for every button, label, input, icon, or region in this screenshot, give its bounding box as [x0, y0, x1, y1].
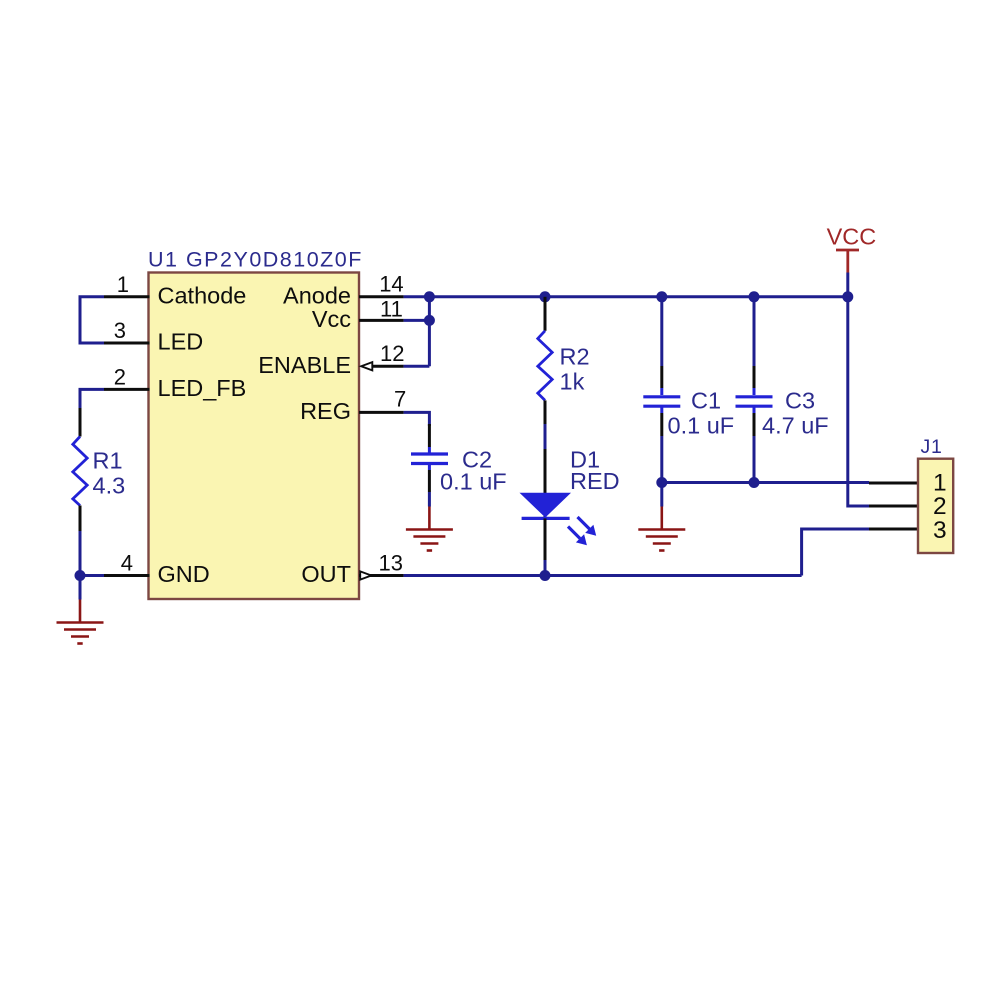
svg-text:U1 GP2Y0D810Z0F: U1 GP2Y0D810Z0F	[148, 247, 363, 271]
ground symbol below C2	[406, 507, 453, 551]
svg-text:11: 11	[380, 296, 403, 321]
svg-text:C3: C3	[785, 388, 815, 414]
svg-text:Anode: Anode	[283, 282, 351, 308]
wire C2 to ground	[428, 492, 431, 507]
capacitor C3	[736, 366, 773, 436]
junction node D1/OUT	[540, 570, 551, 581]
wire pin1 to left loop	[80, 297, 104, 343]
svg-text:4.7 uF: 4.7 uF	[762, 413, 829, 439]
OUT net wire	[404, 574, 802, 577]
svg-text:C1: C1	[691, 388, 721, 414]
bottom cap net to J1 pin1	[662, 481, 869, 484]
junction node pin14	[424, 291, 435, 302]
svg-text:Cathode: Cathode	[158, 282, 247, 308]
wire Vcc pin to vertical	[404, 319, 430, 322]
junction node VCC	[842, 291, 853, 302]
svg-text:Vcc: Vcc	[312, 306, 351, 332]
pin 1 stub (Cathode)	[104, 295, 150, 298]
J1 pin3 stub	[869, 528, 918, 531]
wire VCC to top rail	[846, 273, 849, 297]
pin 7 stub (REG)	[359, 411, 404, 414]
svg-text:4.3: 4.3	[93, 473, 126, 499]
svg-text:2: 2	[114, 364, 126, 389]
wire GND node to pin4	[80, 574, 104, 577]
wire node down to ground	[79, 576, 82, 600]
OUT net vertical to J1 pin3	[802, 529, 869, 576]
pin 11 stub (Vcc)	[359, 319, 404, 322]
capacitor C2	[411, 424, 448, 492]
svg-text:7: 7	[394, 387, 406, 412]
pin 3 stub (LED)	[104, 342, 150, 345]
top net wire (Anode/Vcc rail)	[404, 295, 848, 298]
svg-text:4: 4	[121, 551, 133, 576]
LED light arrows	[578, 517, 590, 529]
junction node C3 top	[749, 291, 760, 302]
wire REG to C2	[404, 412, 430, 426]
svg-text:1k: 1k	[560, 369, 585, 395]
pin 13 output arrow	[360, 571, 371, 579]
svg-text:OUT: OUT	[301, 561, 351, 587]
svg-text:GND: GND	[158, 561, 210, 587]
svg-text:13: 13	[379, 551, 403, 576]
junction node at R1/GND	[75, 570, 86, 581]
wire VCC down to J1 pin2	[848, 297, 869, 506]
J1 pin2 stub	[869, 505, 918, 508]
svg-text:14: 14	[379, 272, 403, 297]
pin 2 stub (LED_FB)	[104, 388, 150, 391]
wire D1 to OUT net	[544, 560, 547, 576]
IC U1 body	[149, 273, 360, 600]
pin 14 stub (Anode)	[359, 295, 404, 298]
resistor R1	[73, 408, 87, 531]
wire top rail to C3	[753, 297, 756, 366]
svg-text:LED: LED	[158, 329, 204, 355]
wire top rail to C1	[660, 297, 663, 366]
wire C1 to bottom net	[660, 436, 663, 483]
svg-text:REG: REG	[300, 398, 351, 424]
svg-text:3: 3	[114, 318, 126, 343]
VCC symbol	[836, 250, 859, 273]
junction node pin11	[424, 315, 435, 326]
pin 4 stub (GND)	[104, 574, 150, 577]
junction node R2 top	[540, 291, 551, 302]
junction node C1 top	[656, 291, 667, 302]
pin 12 stub (ENABLE)	[373, 365, 404, 368]
J1 pin1 stub	[869, 482, 918, 485]
pin 12 input arrow	[361, 362, 372, 370]
ground symbol below C1	[638, 507, 685, 551]
svg-text:1: 1	[117, 272, 129, 297]
svg-text:0.1 uF: 0.1 uF	[440, 469, 507, 495]
svg-text:0.1 uF: 0.1 uF	[668, 413, 735, 439]
connector J1 body	[918, 459, 953, 553]
svg-text:12: 12	[380, 341, 404, 366]
wire C1 node to ground	[660, 483, 663, 507]
diode D1 (LED)	[520, 449, 597, 560]
wire R1 to GND node	[79, 531, 82, 576]
junction node C1 bottom	[656, 477, 667, 488]
svg-text:RED: RED	[570, 468, 620, 494]
svg-text:R1: R1	[93, 448, 123, 474]
wire to ENABLE pin	[404, 365, 430, 368]
svg-text:VCC: VCC	[827, 224, 877, 250]
capacitor C1	[643, 366, 680, 436]
svg-text:J1: J1	[921, 436, 943, 458]
resistor R2	[538, 297, 552, 424]
svg-text:3: 3	[933, 517, 947, 544]
svg-text:LED_FB: LED_FB	[158, 375, 247, 401]
wire pin2 down to R1	[80, 389, 104, 408]
vertical wire 14-11-12	[428, 297, 431, 366]
wire C3 to bottom net	[753, 436, 756, 483]
pin 13 stub (OUT)	[359, 574, 404, 577]
svg-text:ENABLE: ENABLE	[258, 352, 351, 378]
junction node C3 bottom	[749, 477, 760, 488]
svg-text:R2: R2	[560, 344, 590, 370]
wire R2 to D1	[544, 424, 547, 449]
ground symbol below R1	[57, 600, 104, 644]
